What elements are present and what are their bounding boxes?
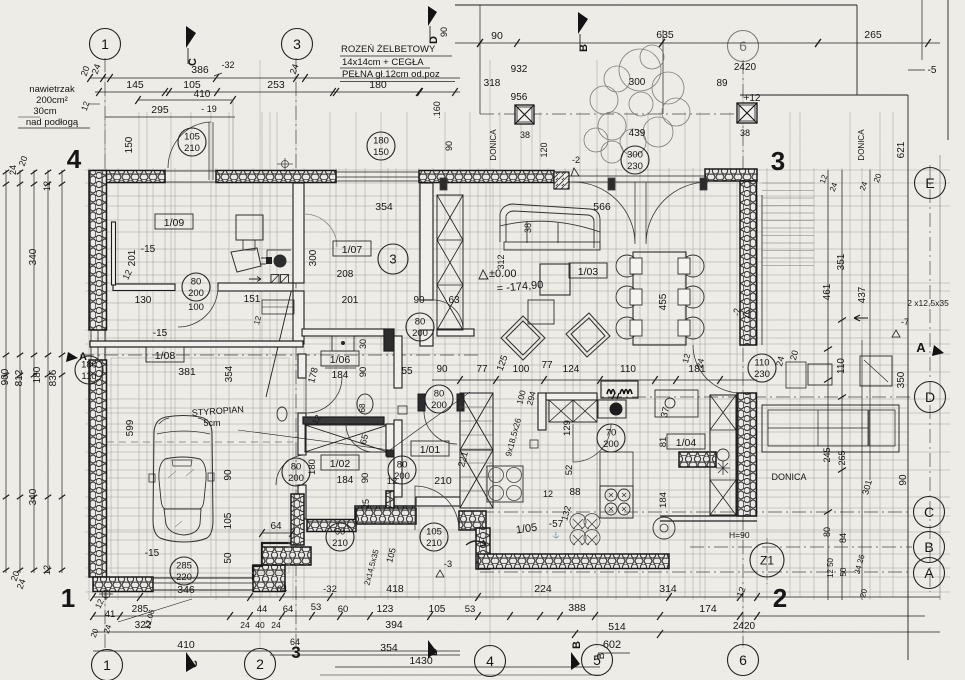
niche fixture near 1/04 <box>655 390 698 417</box>
svg-text:2420: 2420 <box>734 62 757 73</box>
room label 1/06 <box>321 351 359 366</box>
svg-text:24: 24 <box>271 620 281 630</box>
svg-text:110: 110 <box>754 358 769 369</box>
svg-text:2: 2 <box>773 583 787 613</box>
svg-text:90: 90 <box>491 30 503 42</box>
svg-text:602: 602 <box>603 639 621 651</box>
construction grid thin lines <box>85 168 950 600</box>
svg-text:80: 80 <box>397 460 408 471</box>
svg-text:80: 80 <box>822 527 832 537</box>
door arc 1/09 <box>178 287 218 327</box>
svg-text:90: 90 <box>436 364 448 375</box>
size circle 300/230 <box>621 146 649 174</box>
svg-text:-32: -32 <box>221 60 234 70</box>
svg-text:230: 230 <box>627 161 643 172</box>
top dimension row y43 right part <box>455 42 940 44</box>
grid circle Z1 <box>766 538 768 584</box>
svg-text:84: 84 <box>838 533 848 543</box>
svg-text:-5: -5 <box>928 65 937 76</box>
section flag B bottom <box>571 652 580 670</box>
exterior wall: top, segment over rooms 1/09 <box>92 171 165 183</box>
svg-text:nawietrzak: nawietrzak <box>29 84 75 95</box>
size circle 180/110 left <box>75 356 103 384</box>
grid circle 1 bottom <box>92 650 123 680</box>
svg-text:200: 200 <box>431 400 447 411</box>
svg-text:90: 90 <box>360 473 371 484</box>
svg-text:6: 6 <box>739 652 747 668</box>
svg-text:145: 145 <box>126 79 144 91</box>
svg-text:70: 70 <box>606 428 617 439</box>
svg-text:80: 80 <box>415 317 426 328</box>
window line east living room <box>756 195 758 345</box>
door arc top-left room <box>168 122 213 180</box>
tree circles <box>584 45 690 163</box>
terrace double door arcs <box>573 182 635 244</box>
svg-text:A: A <box>924 565 934 581</box>
svg-text:A: A <box>916 340 926 355</box>
wardrobe lines room 1/09 <box>262 300 294 314</box>
entrance porch wall A <box>307 520 356 532</box>
svg-text:-15: -15 <box>153 328 168 339</box>
svg-text:130: 130 <box>135 295 152 306</box>
svg-text:Z1: Z1 <box>760 553 774 567</box>
wall down from porch <box>476 528 490 569</box>
svg-text:5cm: 5cm <box>203 418 220 428</box>
svg-text:-7: -7 <box>901 317 909 327</box>
circled 3 in room 1/07 <box>378 244 408 274</box>
svg-text:210: 210 <box>184 143 200 154</box>
svg-text:12: 12 <box>543 489 553 499</box>
grid circle 4 bottom <box>475 646 506 677</box>
grid circle 6 bottom <box>728 645 759 676</box>
svg-text:514: 514 <box>608 621 626 633</box>
right dimension columns <box>827 170 829 600</box>
svg-text:4: 4 <box>67 144 82 174</box>
kitchen stove box with coils <box>601 381 638 398</box>
svg-text:346: 346 <box>177 584 195 596</box>
window in top wall (1/07) <box>336 171 419 173</box>
top dimension row y92 <box>95 91 460 93</box>
svg-text:3: 3 <box>771 146 785 176</box>
armchair diamond 2 <box>566 313 610 357</box>
wardrobe column living west <box>437 195 463 330</box>
svg-text:68: 68 <box>358 403 367 412</box>
pantry shelf marks 1/05 <box>570 514 600 545</box>
dimension row y113 295 <box>105 116 235 118</box>
exterior wall: left wall lower <box>89 360 107 577</box>
svg-text:77: 77 <box>541 360 553 371</box>
sheet border lines <box>455 4 857 6</box>
door arc 1/06 <box>306 377 342 413</box>
extra pencil extension lines <box>95 112 908 597</box>
svg-text:50: 50 <box>223 552 234 564</box>
washbasin 1/06 <box>332 336 354 351</box>
grid circle A <box>914 558 945 589</box>
svg-text:12 50: 12 50 <box>826 557 835 578</box>
svg-text:354: 354 <box>375 201 393 213</box>
svg-text:90: 90 <box>413 295 425 306</box>
desk and chair room 1/09 <box>236 215 263 240</box>
terrace small table <box>808 364 832 385</box>
svg-text:1: 1 <box>103 657 111 673</box>
svg-text:50: 50 <box>839 567 848 576</box>
svg-text:123: 123 <box>377 604 394 615</box>
bottom dimension rows <box>93 596 940 598</box>
svg-text:418: 418 <box>386 583 404 595</box>
armchair diamond 1 <box>501 316 545 360</box>
size circle 80/200 a <box>182 273 210 301</box>
svg-text:55: 55 <box>401 366 413 377</box>
svg-text:318: 318 <box>484 78 501 89</box>
interior wall: hall top right <box>437 329 474 336</box>
window lines across top-left door opening <box>165 170 216 172</box>
svg-text:295: 295 <box>151 104 169 116</box>
door arc 1/01 east <box>424 411 457 444</box>
interior wall: central vertical x~296 <box>293 183 304 283</box>
svg-text:201: 201 <box>342 295 359 306</box>
svg-text:1/01: 1/01 <box>420 444 441 456</box>
svg-text:.160: .160 <box>432 101 442 119</box>
entrance porch wall C <box>459 511 486 530</box>
door jambs hall south <box>418 394 425 411</box>
exterior wall: bottom main <box>478 554 669 569</box>
svg-text:41: 41 <box>105 609 116 620</box>
svg-text:H=90: H=90 <box>729 530 750 540</box>
svg-text:394: 394 <box>385 619 403 631</box>
grid circle B <box>914 532 945 563</box>
svg-text:180: 180 <box>307 459 318 475</box>
svg-text:90: 90 <box>444 141 454 151</box>
size circle 80/200 d <box>388 456 416 484</box>
dining table <box>633 252 686 345</box>
grid circle E <box>915 168 946 199</box>
svg-text:184: 184 <box>658 492 669 508</box>
svg-text:200: 200 <box>188 288 204 299</box>
svg-text:40: 40 <box>255 620 265 630</box>
svg-text:44: 44 <box>257 604 268 615</box>
svg-text:38: 38 <box>523 223 533 233</box>
svg-text:300: 300 <box>629 77 646 88</box>
svg-text:90: 90 <box>439 27 449 37</box>
interior wall: 1/06 top <box>302 329 384 336</box>
svg-text:1: 1 <box>101 36 109 52</box>
room label 1/07 <box>333 241 371 256</box>
svg-text:201: 201 <box>127 249 138 266</box>
svg-text:224: 224 <box>534 583 552 595</box>
svg-text:150: 150 <box>373 147 389 158</box>
grid circle 1 top <box>90 29 121 60</box>
svg-text:90: 90 <box>898 474 909 486</box>
svg-text:90: 90 <box>358 367 369 378</box>
svg-text:DONICA: DONICA <box>771 472 806 482</box>
size circle 80/200 b <box>406 313 434 341</box>
svg-text:DONICA: DONICA <box>857 129 866 161</box>
svg-text:599: 599 <box>125 419 136 436</box>
svg-text:181: 181 <box>688 363 706 375</box>
svg-text:88: 88 <box>569 487 581 498</box>
svg-text:- 19: - 19 <box>201 104 217 114</box>
svg-text:300: 300 <box>308 249 319 266</box>
wash basin hall <box>277 407 287 421</box>
kitchen top wall <box>538 393 546 430</box>
exterior wall: left wall upper <box>89 171 107 331</box>
svg-text:D: D <box>925 389 935 405</box>
kitchen hob 4 circles <box>600 486 633 518</box>
svg-text:110: 110 <box>836 358 847 374</box>
sofa living room <box>500 204 600 250</box>
size circle 285/220 <box>170 557 198 585</box>
svg-text:2 x12,5x35: 2 x12,5x35 <box>907 298 949 308</box>
size circle 110/230 <box>748 354 776 382</box>
svg-text:64: 64 <box>283 604 294 615</box>
svg-text:354: 354 <box>380 642 398 654</box>
svg-text:38: 38 <box>520 130 530 140</box>
svg-text:B: B <box>924 539 933 555</box>
svg-text:63: 63 <box>448 295 460 306</box>
exterior wall: right wall of living room <box>740 181 757 345</box>
svg-text:-2: -2 <box>732 308 742 316</box>
misc slash ticks <box>137 39 846 638</box>
svg-text:80: 80 <box>191 277 202 288</box>
svg-text:300: 300 <box>627 150 643 161</box>
size circle 70/200 <box>597 424 625 452</box>
svg-text:180: 180 <box>32 366 43 383</box>
interior wall: between 1/07 and living x~426 <box>420 183 433 300</box>
svg-text:+12: +12 <box>744 93 761 104</box>
room label 1/09 <box>155 214 193 229</box>
door arc entry <box>415 486 459 530</box>
svg-text:265: 265 <box>864 29 882 41</box>
axis lines dash-dot <box>80 58 930 650</box>
closet partition in 1/09 <box>112 222 116 285</box>
masonry pier at terrace door <box>554 172 569 189</box>
svg-text:1/06: 1/06 <box>330 354 351 366</box>
exterior wall: top right corner <box>705 169 757 181</box>
svg-text:566: 566 <box>593 201 611 213</box>
grid circle 2 bottom <box>245 649 276 680</box>
exterior wall: right wall kitchen <box>737 393 757 516</box>
svg-text:77: 77 <box>476 364 488 375</box>
faint door arc 1/07 <box>304 214 337 247</box>
exterior wall: block right of garage door <box>253 565 285 592</box>
staircase with cross <box>460 393 493 508</box>
terrace door rails <box>569 175 705 177</box>
svg-text:340: 340 <box>28 488 39 505</box>
interior wall: 1/06 bottom <box>303 417 384 424</box>
svg-text:200: 200 <box>412 328 428 339</box>
svg-text:25: 25 <box>361 499 371 509</box>
svg-text:1: 1 <box>61 583 75 613</box>
tall cabinet right with X <box>710 395 736 515</box>
svg-text:184: 184 <box>332 370 349 381</box>
svg-text:322: 322 <box>135 620 152 631</box>
svg-text:64: 64 <box>277 584 288 595</box>
interior wall: 1/02 bottom hatched <box>356 508 416 524</box>
svg-text:53: 53 <box>311 602 322 613</box>
duct X box top of 1/02 <box>305 425 388 452</box>
section flag D bottom <box>428 640 437 658</box>
interior wall under 1/01 <box>416 497 460 506</box>
svg-text:38: 38 <box>740 128 750 138</box>
room label 1/04 <box>667 434 705 449</box>
svg-text:12: 12 <box>42 181 52 191</box>
window in left wall <box>90 330 92 360</box>
svg-text:124: 124 <box>563 364 580 375</box>
svg-text:354: 354 <box>224 365 235 382</box>
svg-text:200: 200 <box>603 439 619 450</box>
svg-text:90: 90 <box>223 469 234 481</box>
svg-text:100: 100 <box>513 364 530 375</box>
svg-text:2420: 2420 <box>733 621 756 632</box>
svg-text:2: 2 <box>256 656 264 672</box>
svg-text:314: 314 <box>659 583 677 595</box>
svg-text:B: B <box>571 641 583 649</box>
svg-text:200: 200 <box>288 473 304 484</box>
svg-text:180: 180 <box>373 136 389 147</box>
svg-text:PEŁNA gł.12cm od.poz: PEŁNA gł.12cm od.poz <box>342 69 440 80</box>
svg-text:30: 30 <box>358 339 368 349</box>
left dimension columns <box>5 170 7 573</box>
garage door <box>153 577 253 579</box>
top dimension row y78 <box>90 77 460 79</box>
svg-text:60: 60 <box>338 604 349 615</box>
svg-text:C: C <box>187 58 199 66</box>
entrance porch stub <box>386 491 394 508</box>
svg-text:E: E <box>925 175 934 191</box>
svg-text:DONICA: DONICA <box>489 129 498 161</box>
door arc hall->living <box>433 300 463 330</box>
svg-text:150: 150 <box>124 136 135 153</box>
section flag B top <box>578 12 588 34</box>
dimension row y380 middle <box>432 379 757 381</box>
interior wall: under room 1/09 <box>113 284 175 291</box>
exterior wall: top, segment over living room <box>419 171 554 183</box>
svg-text:461: 461 <box>822 283 833 300</box>
svg-text:410: 410 <box>177 639 195 651</box>
svg-text:24: 24 <box>8 165 18 175</box>
grid circle D <box>915 382 946 413</box>
larder 4-leaf tiles <box>487 466 523 502</box>
svg-text:-15: -15 <box>141 244 156 255</box>
grid circle 6 top (faint) <box>728 31 759 62</box>
svg-text:6: 6 <box>739 38 747 54</box>
size circle 105/210 top <box>178 128 206 156</box>
section flag D top <box>428 6 437 26</box>
svg-text:245: 245 <box>822 447 832 462</box>
exterior wall: top, segment over room 1/07 <box>216 171 336 183</box>
car in garage <box>149 416 214 543</box>
room label 1/02 <box>321 455 359 470</box>
svg-text:105: 105 <box>184 132 200 143</box>
svg-text:3: 3 <box>389 252 396 267</box>
kitchen cabinets with X <box>549 400 573 422</box>
coffee table <box>528 300 554 324</box>
svg-text:D: D <box>428 648 440 656</box>
svg-text:100: 100 <box>188 302 204 313</box>
room label 1/08 <box>146 347 184 362</box>
svg-text:60: 60 <box>335 527 346 538</box>
low wall H=90 <box>660 515 757 517</box>
svg-text:200cm²: 200cm² <box>36 95 68 106</box>
svg-text:410: 410 <box>194 89 211 100</box>
svg-text:900: 900 <box>0 368 11 385</box>
svg-text:1/02: 1/02 <box>330 458 351 470</box>
wc 1/06 <box>357 394 373 414</box>
svg-text:1/09: 1/09 <box>164 217 185 229</box>
arrow on steps <box>466 540 486 546</box>
svg-text:B: B <box>596 652 607 659</box>
svg-text:388: 388 <box>568 602 586 614</box>
svg-text:836: 836 <box>48 369 59 386</box>
door arc 1/02 <box>346 424 374 452</box>
svg-text:210: 210 <box>332 538 348 549</box>
svg-text:105: 105 <box>429 604 446 615</box>
svg-text:ROZEŃ ŻELBETOWY: ROZEŃ ŻELBETOWY <box>341 44 436 55</box>
size circle 80/200 c <box>282 458 310 486</box>
washer circle kitchen area <box>653 517 675 539</box>
svg-text:932: 932 <box>511 64 528 75</box>
svg-text:220: 220 <box>176 572 192 583</box>
svg-text:110: 110 <box>620 364 636 375</box>
svg-text:C: C <box>924 504 934 520</box>
svg-text:265: 265 <box>837 450 847 465</box>
svg-text:80: 80 <box>291 462 302 473</box>
interior wall: garage top y~344 <box>90 341 303 347</box>
door arc kitchen <box>573 424 611 462</box>
svg-text:621: 621 <box>896 141 907 158</box>
svg-text:24: 24 <box>240 620 250 630</box>
extension lines <box>105 60 743 648</box>
svg-text:12: 12 <box>42 565 52 575</box>
svg-text:340: 340 <box>28 248 39 265</box>
room label 1/03 <box>569 263 607 278</box>
svg-text:-15: -15 <box>145 548 160 559</box>
door arc garage side <box>276 455 306 485</box>
svg-text:956: 956 <box>511 92 528 103</box>
terrace deck lines <box>762 183 814 266</box>
svg-text:1/04: 1/04 <box>676 437 697 449</box>
svg-text:120: 120 <box>539 142 549 157</box>
svg-text:64: 64 <box>270 521 282 532</box>
wall right of X box <box>386 424 394 456</box>
svg-text:180: 180 <box>369 79 387 91</box>
survey marker bottom left <box>99 588 113 600</box>
svg-text:81: 81 <box>658 437 669 448</box>
svg-text:210: 210 <box>434 475 452 487</box>
svg-text:52: 52 <box>564 465 575 476</box>
grid circle 3 top <box>282 29 313 60</box>
garage inner finish line <box>111 358 289 573</box>
svg-text:350: 350 <box>896 371 907 388</box>
small appliance squares <box>398 406 407 414</box>
grid circle C <box>914 497 945 528</box>
svg-text:439: 439 <box>629 128 646 139</box>
svg-text:208: 208 <box>337 269 354 280</box>
svg-text:3: 3 <box>293 36 301 52</box>
size circle 60/210 <box>326 523 354 551</box>
svg-text:1/08: 1/08 <box>155 350 176 362</box>
svg-text:C: C <box>188 660 200 668</box>
svg-text:455: 455 <box>658 293 669 310</box>
dimension row y100 410 <box>138 99 233 101</box>
svg-text:30cm: 30cm <box>33 106 56 117</box>
svg-text:105: 105 <box>426 527 442 538</box>
size circle 105/210 entry <box>420 523 448 551</box>
size circle 180/150 top <box>367 132 395 160</box>
exterior entry steps zigzag <box>291 494 304 545</box>
svg-text:381: 381 <box>178 366 196 378</box>
svg-text:437: 437 <box>857 286 868 303</box>
